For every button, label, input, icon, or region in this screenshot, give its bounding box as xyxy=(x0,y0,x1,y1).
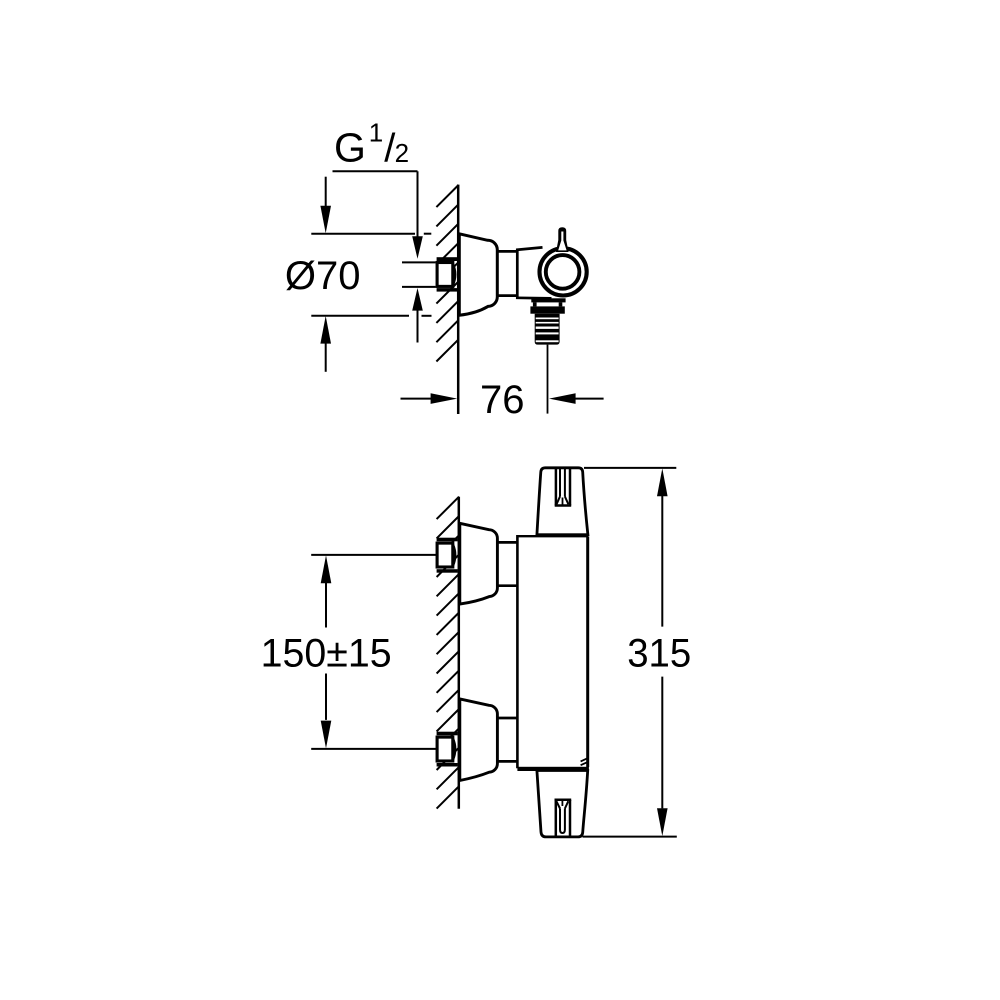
dimension 315: arrows xyxy=(657,468,668,496)
dimension 315: extension lines xyxy=(584,467,676,469)
dimension G1/2: nipple extension lines xyxy=(402,262,436,287)
union nipple (side view): thread bands xyxy=(437,257,458,291)
dimension 150±15: extension lines xyxy=(311,554,436,556)
lower union nipple (front view): thread bands xyxy=(437,732,458,767)
wall hatching (front view) xyxy=(437,497,459,809)
lower neck (front view) xyxy=(497,718,517,761)
upper union nipple (front view): dome arc xyxy=(453,544,455,566)
svg-text:1: 1 xyxy=(369,117,383,147)
outlet nut (side view) xyxy=(530,306,564,313)
svg-text:2: 2 xyxy=(395,138,409,168)
valve body (side view) xyxy=(517,247,560,298)
upper union nipple (front view): square body xyxy=(437,543,453,567)
lower union nipple (front view): square body xyxy=(437,737,453,761)
upper escutcheon (front view) xyxy=(460,523,498,604)
body capsule (front view) xyxy=(517,536,587,771)
escutcheon (side view) xyxy=(459,234,497,315)
wall section line (front view) xyxy=(458,497,461,809)
dimension label G 1/2 xyxy=(334,117,409,170)
upper knob grip slot xyxy=(555,468,572,506)
svg-text:76: 76 xyxy=(480,378,525,422)
union nipple (side view): dome arc xyxy=(453,264,455,286)
outlet center line (side view) xyxy=(547,345,549,414)
dimension Ø70: arrows xyxy=(325,177,327,207)
flow mark ticks on capsule right edge xyxy=(581,759,587,766)
svg-text:315: 315 xyxy=(627,632,691,676)
union nipple (side view): square body xyxy=(437,263,453,287)
upper union nipple (front view): thread bands xyxy=(437,538,458,573)
dimension G1/2: top reference line xyxy=(333,170,418,172)
dimension 76: left arrow to wall xyxy=(401,398,433,400)
upper knob bottom band xyxy=(537,533,589,537)
dimension Ø70: top extension line xyxy=(311,233,415,235)
lower union nipple (front view): dome arc xyxy=(453,738,455,760)
thermostat handle outer ring (side view) xyxy=(540,248,587,295)
svg-text:G: G xyxy=(334,125,366,171)
lower knob grip slot xyxy=(555,800,572,837)
dimension 150±15: arrows xyxy=(321,555,332,583)
svg-text:Ø70: Ø70 xyxy=(285,254,361,298)
upper knob (front view) xyxy=(537,468,588,535)
outlet flange (side view) xyxy=(531,298,565,302)
upper neck (front view) xyxy=(497,542,517,585)
svg-text:150±15: 150±15 xyxy=(261,632,392,676)
wall hatching (side view) xyxy=(436,185,458,362)
handle inner ring (side view) xyxy=(546,255,580,289)
lower knob (front view) xyxy=(537,771,588,837)
body capsule bottom band xyxy=(517,767,589,771)
lower escutcheon (front view) xyxy=(460,699,498,781)
outlet threaded tip (side view) xyxy=(535,314,560,345)
neck between escutcheon and valve body (side view) xyxy=(497,251,517,295)
handle lever pin (side view) xyxy=(556,227,569,252)
wall section line (side view) xyxy=(457,185,460,414)
dimension G1/2: right extension with arrows xyxy=(417,171,419,342)
outlet collar side strips (side view) xyxy=(533,302,537,306)
dimension 76: right arrow to outlet axis xyxy=(549,393,576,404)
dimension Ø70: bottom extension line xyxy=(311,315,409,317)
